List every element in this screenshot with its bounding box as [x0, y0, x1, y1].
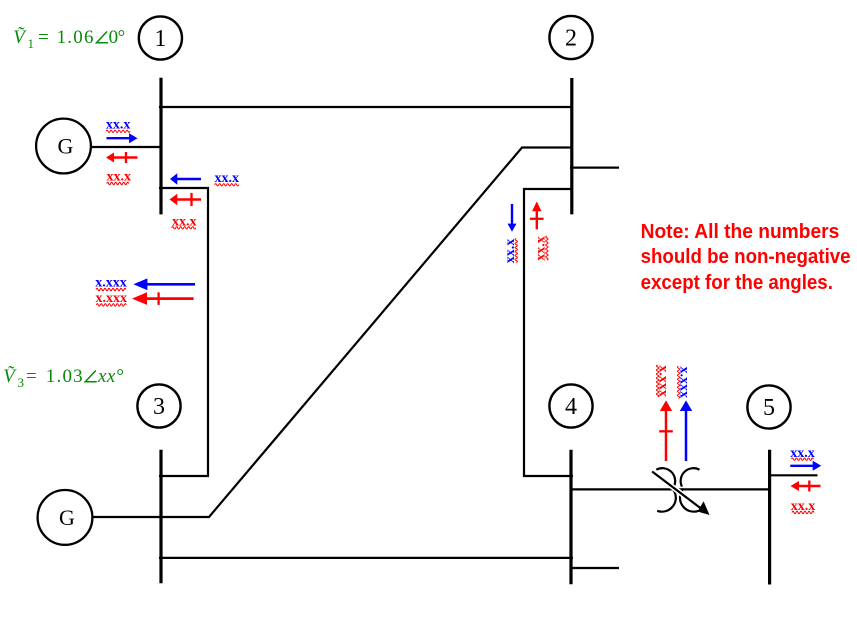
svg-text:°: ° [118, 27, 126, 48]
svg-text:=: = [38, 27, 49, 48]
svg-text:3: 3 [153, 394, 165, 420]
svg-text:xx.x: xx.x [790, 446, 815, 461]
svg-text:xx.x: xx.x [791, 499, 816, 514]
svg-text:5: 5 [763, 395, 775, 421]
svg-text:1.06: 1.06 [57, 27, 95, 48]
svg-text:Note: All the numbers: Note: All the numbers [641, 220, 840, 243]
svg-text:1: 1 [154, 26, 166, 52]
svg-text:1: 1 [28, 36, 35, 51]
svg-text:°: ° [116, 366, 124, 387]
svg-text:4: 4 [565, 394, 577, 420]
svg-text:1.03: 1.03 [46, 366, 84, 387]
svg-text:3: 3 [18, 375, 25, 390]
svg-text:xx: xx [97, 366, 116, 387]
svg-text:2: 2 [565, 26, 577, 52]
svg-text:except for the angles.: except for the angles. [641, 271, 833, 294]
svg-text:should be non-negative: should be non-negative [641, 245, 851, 268]
svg-text:G: G [58, 133, 74, 158]
svg-text:=: = [26, 366, 37, 387]
svg-text:x.xxx: x.xxx [96, 291, 128, 306]
svg-text:G: G [59, 505, 75, 530]
